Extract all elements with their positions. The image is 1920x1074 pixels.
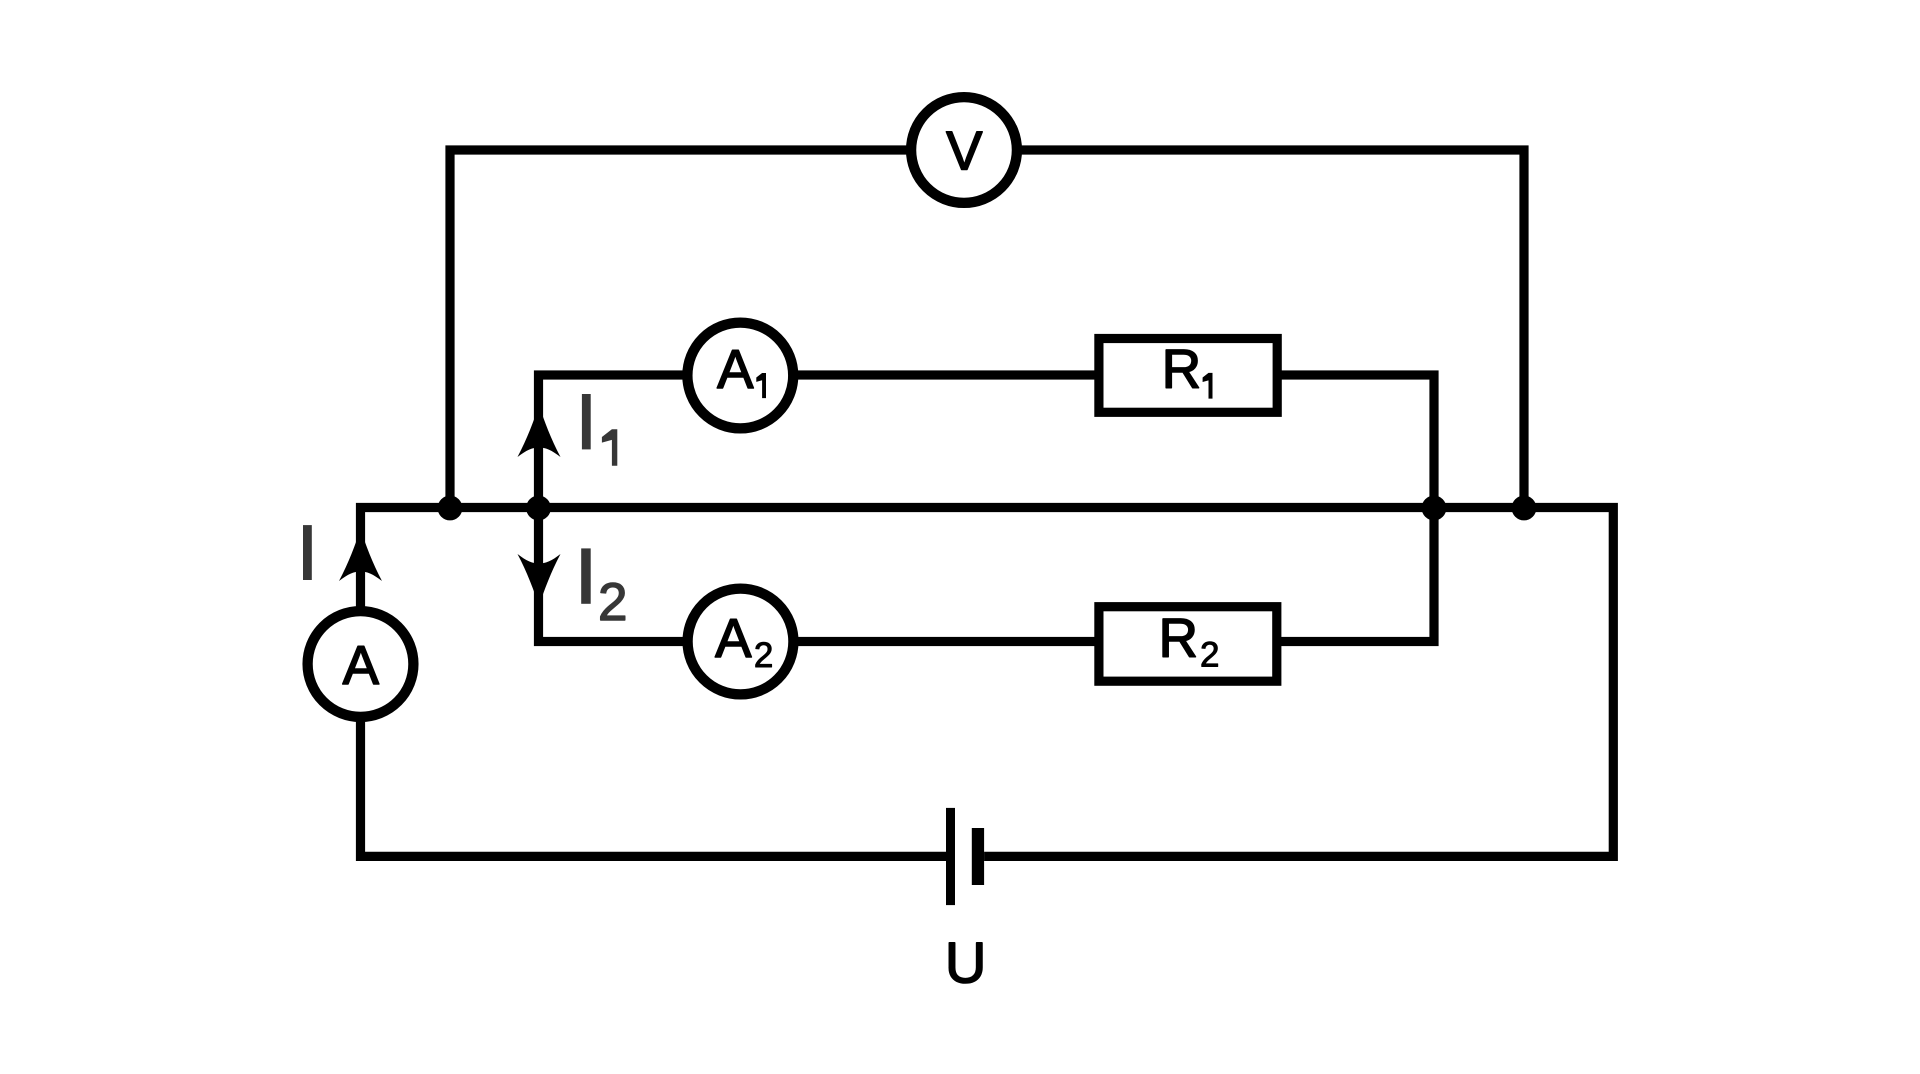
label I1 [582,394,591,449]
ammeter A [308,611,414,717]
svg-text:A: A [717,339,754,400]
ammeter A1 subscript 1 [756,373,766,398]
ammeter A2 [688,589,794,695]
label I1 subscript 1 [602,429,617,465]
label I [303,525,312,580]
svg-text:A: A [715,608,752,669]
svg-text:A: A [343,635,380,696]
wire top voltmeter loop [450,150,1524,508]
resistor R1 [1099,339,1277,413]
svg-text:U: U [945,931,987,995]
wire main loop: A branch, middle node line, right side down to battery [361,508,1614,857]
wire parallel branch loop (branch 1 top, branch 2 bottom) [539,375,1435,642]
label I2 [581,548,591,603]
voltmeter V [911,97,1017,203]
svg-text:R: R [1162,339,1201,400]
svg-text:R: R [1159,608,1198,669]
node junction dot branch merge [1422,496,1447,521]
node junction dot branch split [526,496,551,521]
svg-text:V: V [946,121,983,182]
node junction dot left [438,496,463,521]
svg-text:2: 2 [754,636,773,675]
arrow current I [339,529,382,581]
resistor R2 [1099,607,1277,682]
battery long plate [946,808,955,905]
arrow current I2 [518,554,561,606]
resistor R1 subscript 1 [1203,373,1213,399]
node junction dot right [1512,496,1537,521]
ammeter A1 [687,323,793,429]
battery short plate [972,828,984,885]
arrow current I1 [518,405,561,457]
svg-text:2: 2 [598,573,627,632]
svg-text:2: 2 [1200,636,1219,675]
